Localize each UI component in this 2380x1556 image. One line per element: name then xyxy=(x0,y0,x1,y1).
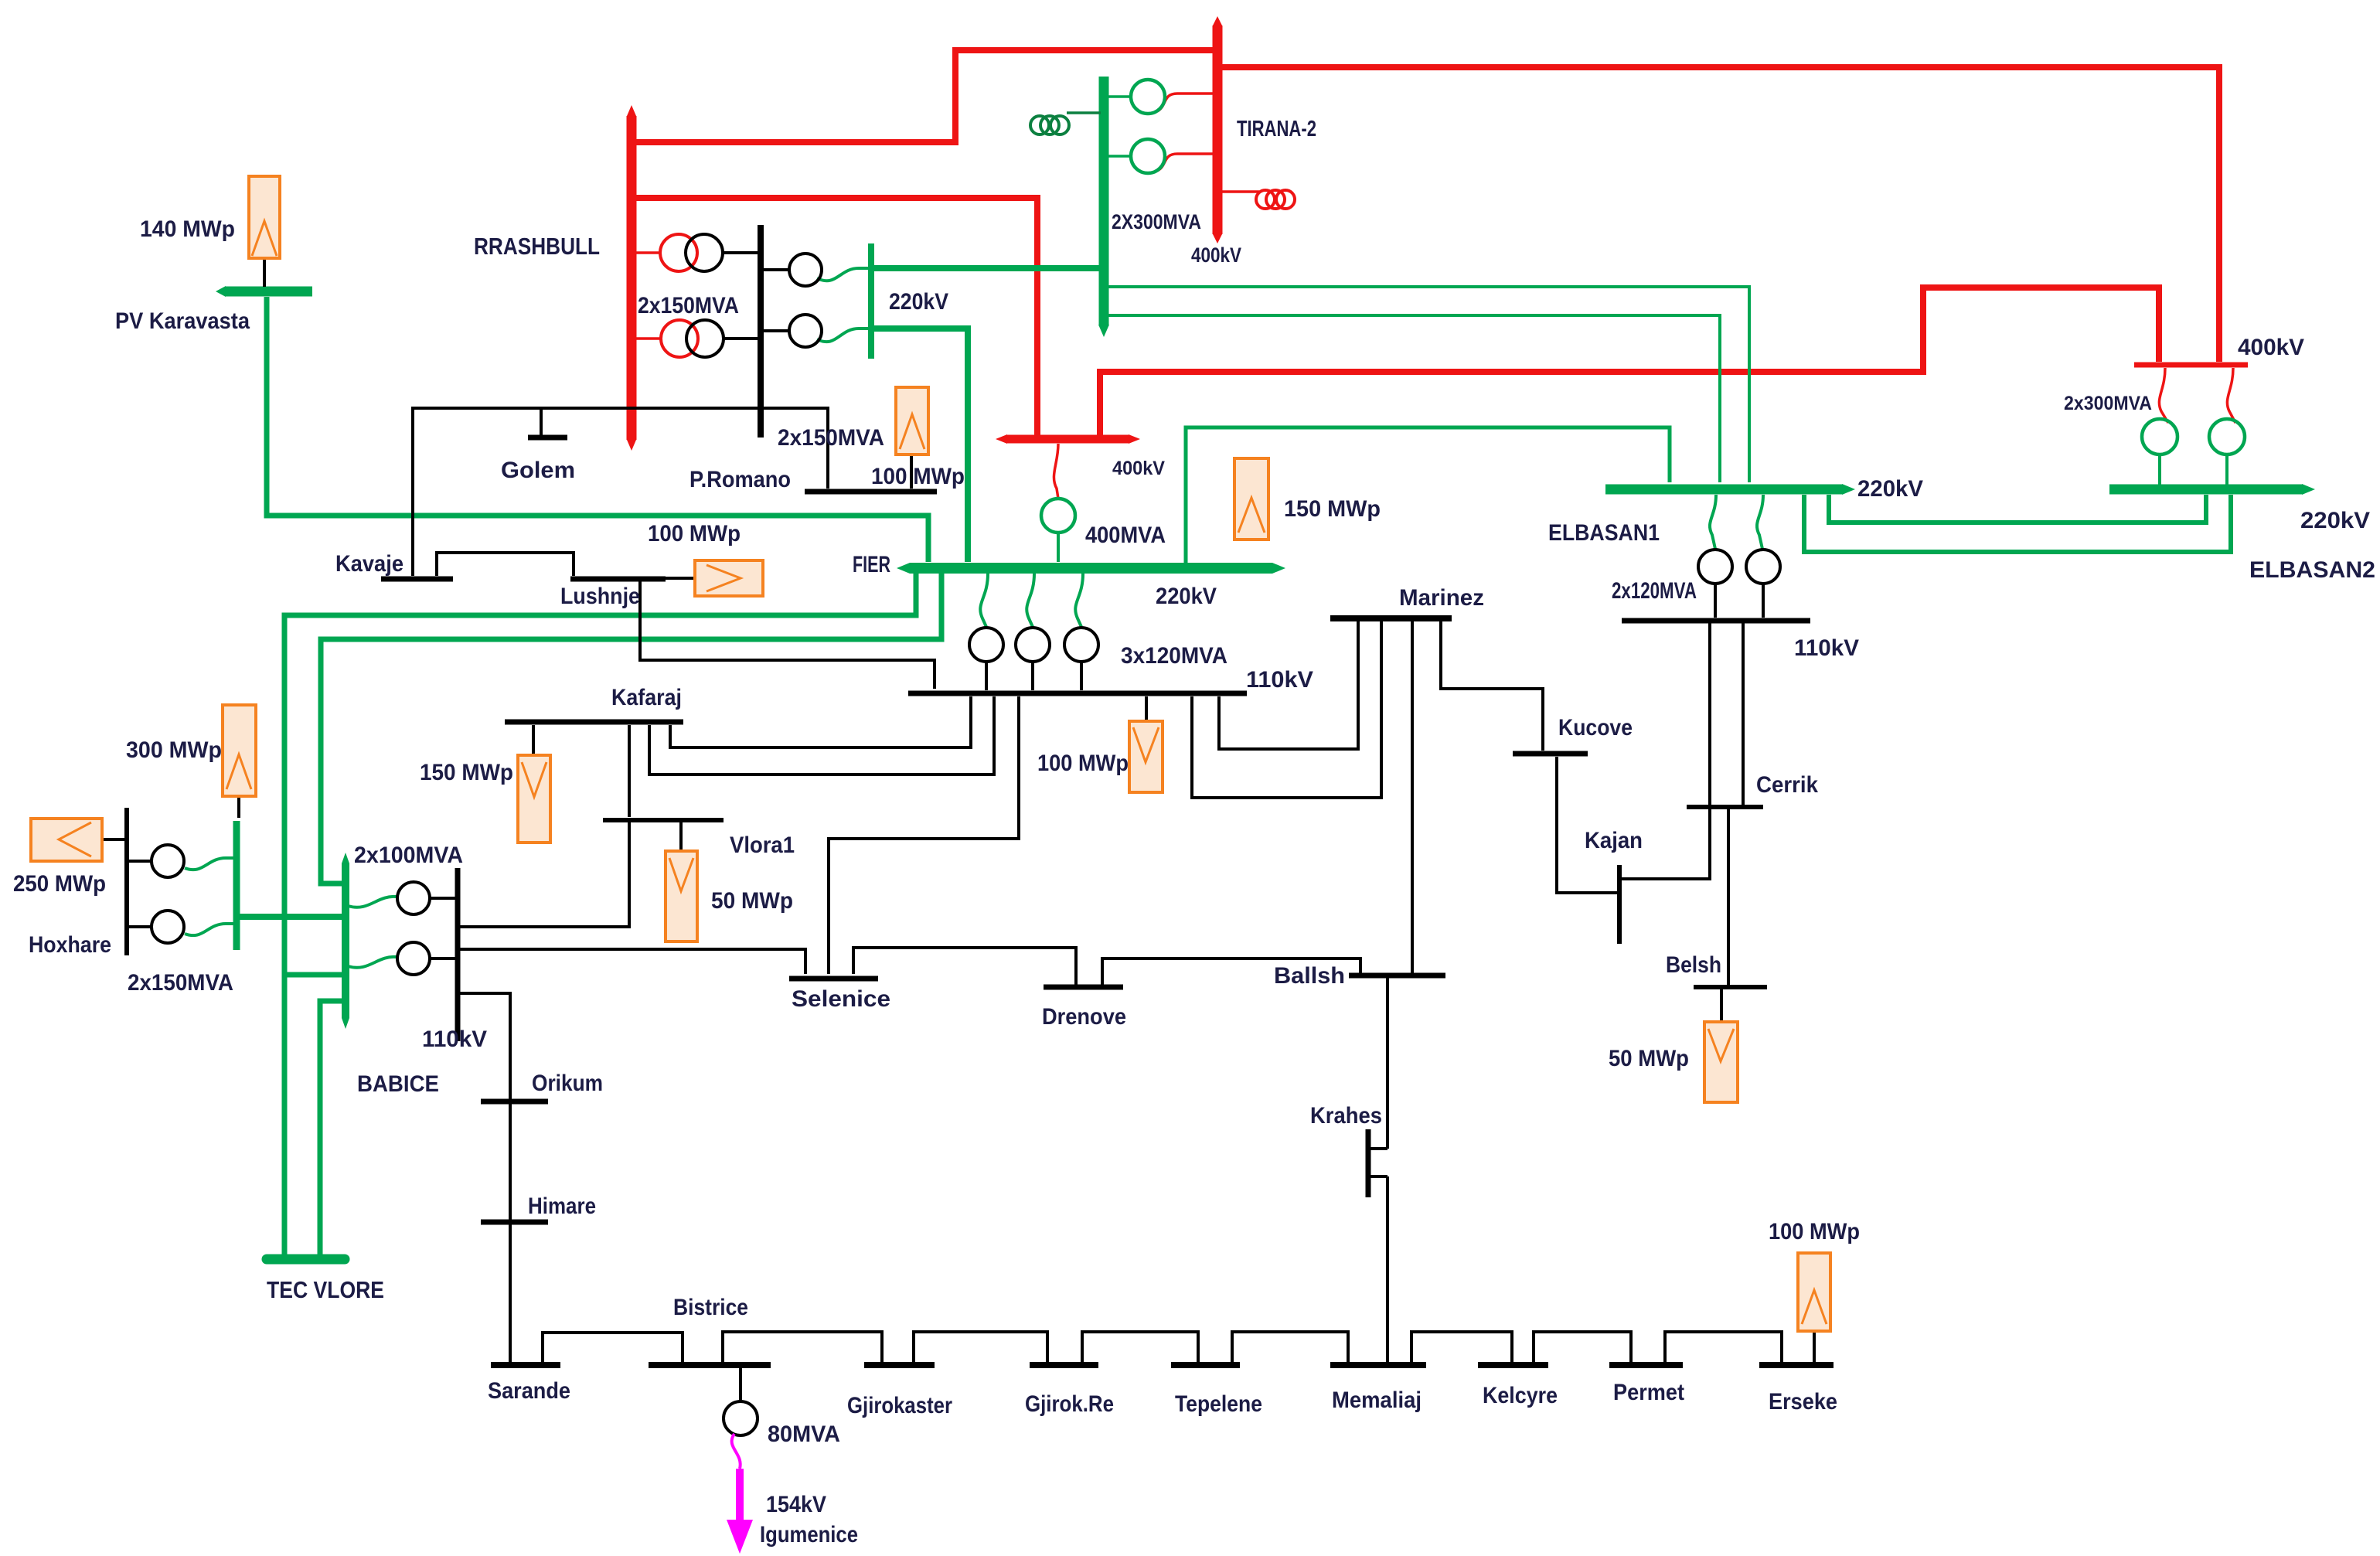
transformer circle ELBASAN2 no.2 xyxy=(2209,419,2245,455)
wire Babice to Selenice xyxy=(458,949,805,974)
PV generator 100 MWp P.Romano xyxy=(896,387,928,455)
transformer half red lower 2x150MVA RRASHBULL xyxy=(632,337,661,340)
svg-text:Kajan: Kajan xyxy=(1585,828,1643,853)
busbar Ballsh xyxy=(1349,973,1445,979)
wire green S-drop FIER 3x120MVA no.1 xyxy=(980,574,988,627)
PV generator 300 MWp xyxy=(223,705,256,796)
svg-text:100 MWp: 100 MWp xyxy=(1037,751,1129,776)
svg-text:Tepelene: Tepelene xyxy=(1175,1391,1262,1417)
reactor coil green TIRANA xyxy=(1030,116,1049,134)
wire Kavaje-Golem-P.Romano xyxy=(413,408,828,576)
wire Drenove to Ballsh xyxy=(1102,958,1360,985)
busbar ELBASAN1 110kV xyxy=(1622,618,1810,624)
wire 250MWp PV lead xyxy=(102,838,127,841)
wire Kavaje-Lushnje jumper xyxy=(437,553,574,576)
wire Kafaraj 150MWp stub xyxy=(532,725,535,755)
busbar FIER 220kV xyxy=(910,563,1272,574)
svg-text:Orikum: Orikum xyxy=(532,1071,603,1096)
wire ELBASAN1 to Cerrik no.1 xyxy=(1708,623,1711,879)
wire green S-drop FIER 3x120MVA no.2 xyxy=(1027,574,1034,627)
wire Sarande-Bistrice jumper xyxy=(543,1333,683,1362)
busbar TIRANA-2 220kV xyxy=(1099,77,1109,325)
wire FIER to Marinez 1 xyxy=(1219,621,1358,749)
svg-text:2x100MVA: 2x100MVA xyxy=(354,843,463,868)
svg-text:50 MWp: 50 MWp xyxy=(1609,1046,1689,1071)
busbar Hoxhare 110kV xyxy=(124,808,129,955)
wire Vlora1 50MWp stub xyxy=(679,822,683,851)
busbar TEC VLORE xyxy=(267,1255,345,1265)
svg-text:Kafaraj: Kafaraj xyxy=(611,685,682,710)
wire Gjirokaster-Gjirok.Re jumper xyxy=(914,1332,1047,1362)
svg-text:2x150MVA: 2x150MVA xyxy=(778,425,884,451)
busbar BABICE 110kV xyxy=(455,868,461,1041)
transformer circle RRASHBULL 220kV side A xyxy=(789,254,822,286)
transformer circle TIRANA lower 300MVA xyxy=(1131,139,1165,173)
busbar Bistrice xyxy=(649,1362,771,1368)
svg-text:110kV: 110kV xyxy=(1794,635,1859,661)
svg-text:Ballsh: Ballsh xyxy=(1274,963,1345,989)
busbar Erseke xyxy=(1759,1362,1834,1368)
svg-text:2x150MVA: 2x150MVA xyxy=(638,293,739,318)
svg-text:110kV: 110kV xyxy=(422,1027,487,1052)
wire RRASHBULL to FIER 220kV xyxy=(871,329,968,562)
svg-text:Memaliaj: Memaliaj xyxy=(1332,1387,1422,1413)
wire red S-curve ELBASAN2 transformer 2 xyxy=(2227,368,2235,423)
busbar Permet xyxy=(1609,1362,1683,1368)
wire FIER to Selenice xyxy=(829,696,1019,974)
wire Cerrik to Belsh xyxy=(1727,809,1730,985)
wire green S-curve Babice transformer 1 xyxy=(348,897,397,907)
wire Selenice to Drenove xyxy=(853,948,1076,985)
svg-text:100 MWp: 100 MWp xyxy=(648,521,741,546)
wire RRASHBULL to TIRANA 220kV xyxy=(871,265,1101,271)
busbar Kelcyre xyxy=(1478,1362,1548,1368)
wire ELBASAN1-ELBASAN2 link lower xyxy=(1804,495,2231,552)
wire Tepelene-Memaliaj jumper xyxy=(1232,1332,1348,1362)
transformer circle ELBASAN1 no.1 xyxy=(1698,550,1732,584)
svg-text:3x120MVA: 3x120MVA xyxy=(1121,643,1227,669)
svg-text:150 MWp: 150 MWp xyxy=(1284,496,1381,522)
busbar PV Karavasta 220kV xyxy=(226,287,312,297)
transformer circle FIER 3x120MVA no.2 xyxy=(1016,628,1050,662)
wire green S-curve Hoxhare transformer 1 xyxy=(185,858,237,870)
wire red S-curve ELBASAN2 transformer 1 xyxy=(2159,368,2168,423)
wire Gjirok.Re-Tepelene jumper xyxy=(1082,1332,1198,1362)
svg-text:Lushnje: Lushnje xyxy=(560,584,640,609)
svg-text:220kV: 220kV xyxy=(889,289,948,315)
PV generator 150 MWp FIER xyxy=(1234,458,1268,540)
wire green S-curve RRASHBULL transformer A xyxy=(817,268,873,281)
wire green S-curve RRASHBULL transformer B xyxy=(817,329,873,342)
wire FIER 110kV 100MWp stub xyxy=(1145,696,1148,721)
svg-text:Golem: Golem xyxy=(501,458,575,483)
transformer circle FIER 400MVA xyxy=(1041,499,1075,533)
svg-text:TIRANA-2: TIRANA-2 xyxy=(1237,117,1316,141)
busbar P.Romano xyxy=(805,489,937,495)
wire TIRANA to ELBASAN1 line 2 xyxy=(1108,315,1720,482)
transformer circle black upper 2x150MVA RRASHBULL xyxy=(686,234,723,271)
wire Belsh 50MWp stub xyxy=(1720,989,1723,1022)
transformer circle ELBASAN1 no.2 xyxy=(1746,550,1780,584)
busbar Krahes xyxy=(1366,1129,1371,1197)
wire Krahes jog upper xyxy=(1368,1147,1387,1150)
wire Ballsh to Memaliaj xyxy=(1386,978,1389,1149)
busbar ELBASAN1 220kV xyxy=(1605,485,1842,495)
busbar Cerrik xyxy=(1687,805,1763,809)
svg-text:Krahes: Krahes xyxy=(1310,1103,1382,1129)
wire Kajan to Cerrik xyxy=(1621,877,1711,880)
busbar ELBASAN 400kV xyxy=(2134,363,2248,368)
wire Erseke 100MWp stub xyxy=(1813,1331,1816,1362)
wire Kafaraj to FIER line A xyxy=(670,696,971,747)
busbar Gjirokaster xyxy=(864,1362,935,1368)
busbar RRASHBULL 220kV xyxy=(868,243,874,359)
svg-text:300 MWp: 300 MWp xyxy=(126,737,222,763)
svg-text:150 MWp: 150 MWp xyxy=(420,760,513,785)
busbar Belsh xyxy=(1694,985,1767,989)
svg-text:Himare: Himare xyxy=(528,1193,596,1219)
arrow 154kV Igumenice xyxy=(736,1469,744,1523)
svg-text:2X300MVA: 2X300MVA xyxy=(1112,210,1201,233)
wire Hoxhare to Babice xyxy=(237,914,342,920)
svg-text:100 MWp: 100 MWp xyxy=(871,464,965,489)
svg-text:ELBASAN2: ELBASAN2 xyxy=(2249,557,2375,583)
wire Marinez to Kucove xyxy=(1441,621,1543,751)
wire Babice to Orikum-Himare-Sarande xyxy=(458,993,510,1362)
busbar Orikum xyxy=(481,1099,548,1105)
wire 300MWp PV stub xyxy=(237,796,240,818)
svg-text:Sarande: Sarande xyxy=(488,1378,570,1404)
wire green S-drop ELBASAN1 transformer 1 xyxy=(1710,495,1716,549)
svg-text:2x120MVA: 2x120MVA xyxy=(1612,578,1697,604)
svg-text:Selenice: Selenice xyxy=(792,986,890,1012)
transformer circle Hoxhare 2 xyxy=(152,911,184,943)
svg-text:Gjirok.Re: Gjirok.Re xyxy=(1025,1391,1114,1417)
svg-text:Hoxhare: Hoxhare xyxy=(29,932,111,958)
busbar RRASHBULL 110kV vertical xyxy=(758,225,764,438)
svg-text:50 MWp: 50 MWp xyxy=(711,888,793,914)
wire P.Romano PV stub xyxy=(910,455,913,489)
PV generator 100 MWp Erseke xyxy=(1798,1253,1830,1331)
wire to green reactor coil xyxy=(1067,111,1101,114)
wire Golem stub xyxy=(540,408,543,435)
busbar Tepelene xyxy=(1171,1362,1240,1368)
svg-text:154kV: 154kV xyxy=(766,1492,826,1517)
wire Kelcyre-Permet jumper xyxy=(1534,1332,1631,1362)
wire Kafaraj to Vlora1 xyxy=(628,725,631,817)
wire green S-drop ELBASAN1 transformer 2 xyxy=(1757,495,1763,549)
wire Memaliaj-Kelcyre jumper xyxy=(1411,1332,1512,1362)
transformer circle FIER 3x120MVA no.3 xyxy=(1064,628,1098,662)
svg-text:FIER: FIER xyxy=(853,552,890,577)
svg-text:220kV: 220kV xyxy=(1857,476,1923,502)
svg-text:2x300MVA: 2x300MVA xyxy=(2064,393,2152,414)
wire RRASHBULL second line down to FIER 400kV bus xyxy=(632,198,1037,438)
transformer circle TIRANA upper 300MVA xyxy=(1131,80,1165,114)
svg-text:Erseke: Erseke xyxy=(1769,1389,1837,1415)
wire Bistrice-Gjirokaster jumper xyxy=(723,1332,882,1362)
svg-text:ELBASAN1: ELBASAN1 xyxy=(1548,520,1660,546)
wire Kucove to Kajan xyxy=(1557,757,1618,893)
PV generator 50 MWp Vlora1 xyxy=(666,851,697,941)
wire green S-curve Babice transformer 2 xyxy=(348,957,397,968)
busbar Memaliaj xyxy=(1330,1362,1426,1368)
svg-text:400kV: 400kV xyxy=(2238,335,2304,360)
wire RRASHBULL top to TIRANA-2 400kV bus xyxy=(632,50,1215,142)
wire green S-drop FIER 3x120MVA no.3 xyxy=(1075,574,1083,627)
PV generator 140 MWp Karavasta xyxy=(249,176,280,258)
wire FIER 400kV to ELBASAN 400kV xyxy=(1100,288,2159,438)
busbar HOXHARE 220kV xyxy=(233,821,240,950)
busbar Kavaje xyxy=(381,577,453,582)
transformer half red upper 2x150MVA RRASHBULL xyxy=(632,251,660,254)
wire Lushnje to FIER 110kV xyxy=(640,581,935,689)
svg-text:400kV: 400kV xyxy=(1112,458,1165,479)
busbar Kafaraj xyxy=(505,720,683,725)
busbar Himare xyxy=(481,1220,548,1225)
svg-text:Marinez: Marinez xyxy=(1399,585,1484,611)
busbar Sarande xyxy=(491,1362,560,1368)
svg-text:80MVA: 80MVA xyxy=(768,1422,840,1447)
busbar Kajan vertical xyxy=(1617,865,1622,944)
svg-text:PV Karavasta: PV Karavasta xyxy=(115,308,250,334)
svg-text:400MVA: 400MVA xyxy=(1085,523,1166,548)
PV generator 100 MWp Lushnje xyxy=(695,560,763,596)
wire Krahes jog lower xyxy=(1368,1175,1387,1178)
svg-text:2x150MVA: 2x150MVA xyxy=(128,970,233,996)
wire Permet-Erseke jumper xyxy=(1665,1332,1782,1362)
svg-text:Kucove: Kucove xyxy=(1558,715,1633,741)
wire red S-curve TIRANA lower transformer xyxy=(1157,154,1217,171)
wire Marinez to Ballsh xyxy=(1411,621,1414,973)
wire FIER to TEC VLORE (tap Babice) xyxy=(284,574,916,1256)
wire Babice to TEC VLORE xyxy=(320,1001,346,1256)
busbar ELBASAN2 220kV xyxy=(2109,485,2302,495)
busbar Vlora1 xyxy=(603,818,724,822)
svg-text:BABICE: BABICE xyxy=(357,1071,439,1097)
svg-text:100 MWp: 100 MWp xyxy=(1769,1219,1860,1244)
svg-text:220kV: 220kV xyxy=(1156,584,1217,609)
wire TIRANA to ELBASAN1 line 1 xyxy=(1108,287,1749,482)
transformer circle FIER 3x120MVA no.1 xyxy=(969,628,1003,662)
transformer circle black lower 2x150MVA RRASHBULL xyxy=(686,320,724,357)
busbar RRASHBULL 400kV xyxy=(627,116,637,440)
wire red S-curve FIER 400MVA transformer xyxy=(1054,444,1058,499)
transformer circle RRASHBULL 220kV side B xyxy=(789,315,822,347)
reactor coil red TIRANA xyxy=(1256,190,1275,209)
wire green S-curve Hoxhare transformer 2 xyxy=(185,924,237,935)
svg-text:400kV: 400kV xyxy=(1191,243,1241,267)
transformer circle 80MVA Bistrice xyxy=(739,1368,742,1401)
svg-text:Vlora1: Vlora1 xyxy=(730,832,795,858)
svg-text:P.Romano: P.Romano xyxy=(689,467,791,492)
wire FIER to Marinez 2 xyxy=(1192,621,1381,798)
PV generator 150 MWp Kafaraj xyxy=(518,755,550,843)
svg-text:Kelcyre: Kelcyre xyxy=(1483,1383,1558,1408)
busbar TIRANA-2 400kV xyxy=(1213,26,1223,234)
svg-text:Belsh: Belsh xyxy=(1666,952,1721,978)
busbar BABICE 220kV xyxy=(342,863,349,1018)
transformer circle Hoxhare 1 xyxy=(152,845,184,877)
svg-text:Gjirokaster: Gjirokaster xyxy=(847,1393,952,1418)
busbar FIER 400kV xyxy=(1007,435,1129,444)
svg-text:RRASHBULL: RRASHBULL xyxy=(474,233,600,260)
busbar Selenice xyxy=(789,976,878,982)
wire red S-curve TIRANA upper transformer xyxy=(1157,94,1217,111)
wire Lushnje PV lead xyxy=(666,577,695,580)
svg-text:Kavaje: Kavaje xyxy=(335,551,403,577)
wire FIER to ELBASAN1 xyxy=(1186,427,1670,563)
svg-text:220kV: 220kV xyxy=(2300,508,2370,533)
svg-text:250 MWp: 250 MWp xyxy=(13,871,106,897)
svg-text:Permet: Permet xyxy=(1613,1380,1684,1405)
transformer circle ELBASAN2 no.1 xyxy=(2142,419,2177,455)
svg-text:140 MWp: 140 MWp xyxy=(140,216,235,242)
wire magenta S-curve from 80MVA xyxy=(732,1434,741,1469)
wire to red reactor coil TIRANA xyxy=(1217,190,1259,193)
PV generator 50 MWp Belsh xyxy=(1704,1022,1738,1102)
wire PV Karavasta stub xyxy=(263,258,266,287)
busbar Marinez xyxy=(1330,615,1452,621)
busbar Lushnje xyxy=(570,577,666,582)
wire Babice to Vlora1 xyxy=(458,822,629,927)
busbar Golem xyxy=(528,435,567,441)
wire TIRANA-2 top line to ELBASAN 400kV xyxy=(1220,67,2219,362)
svg-text:Drenove: Drenove xyxy=(1042,1004,1126,1030)
svg-text:Cerrik: Cerrik xyxy=(1756,772,1818,798)
transformer circle Babice 1 xyxy=(397,882,430,914)
busbar Drenove xyxy=(1044,985,1123,990)
wire Kafaraj to FIER line B xyxy=(649,696,994,775)
busbar FIER 110kV xyxy=(908,691,1247,696)
PV generator 100 MWp FIER 110kV xyxy=(1129,721,1163,792)
wire ELBASAN1 to Cerrik no.2 xyxy=(1742,623,1745,805)
wire FIER to Babice xyxy=(321,574,941,884)
svg-text:Bistrice: Bistrice xyxy=(673,1295,748,1320)
wire ELBASAN1-ELBASAN2 link upper xyxy=(1829,495,2206,523)
busbar Gjirok.Re xyxy=(1030,1362,1098,1368)
transformer circle Babice 2 xyxy=(397,942,430,975)
svg-text:Igumenice: Igumenice xyxy=(760,1522,858,1547)
svg-text:110kV: 110kV xyxy=(1246,667,1313,693)
wire PV Karavasta to FIER xyxy=(267,297,928,562)
busbar Kucove xyxy=(1513,751,1588,757)
svg-text:TEC VLORE: TEC VLORE xyxy=(267,1276,384,1303)
PV generator 250 MWp Hoxhare xyxy=(31,819,102,861)
wire tap to Babice bus xyxy=(284,972,342,978)
